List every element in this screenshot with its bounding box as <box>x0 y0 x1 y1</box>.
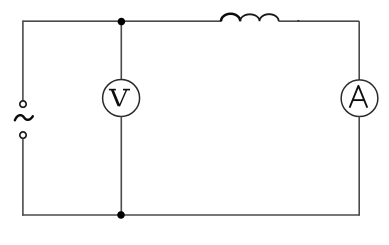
voltmeter letter V <box>109 90 130 107</box>
AC source tilde symbol <box>15 115 33 120</box>
wire top-middle horizontal (junction to inductor) <box>121 20 222 22</box>
wire ammeter branch upper <box>358 21 360 80</box>
wire left vertical lower (AC source to bottom) <box>22 139 24 216</box>
junction node top <box>118 18 126 26</box>
ammeter A <box>341 80 378 117</box>
ammeter letter A <box>350 86 368 108</box>
wire voltmeter branch lower <box>120 116 122 215</box>
wire nick on top-right segment <box>297 20 299 22</box>
junction node bottom <box>117 211 125 219</box>
wire bottom horizontal left (to junction) <box>22 214 121 216</box>
inductor L1 <box>221 14 240 21</box>
AC source terminal upper <box>20 101 26 107</box>
wire voltmeter branch upper <box>120 21 122 79</box>
wire top-left horizontal (source top to junction) <box>23 20 122 22</box>
AC source terminal lower <box>20 132 26 138</box>
wire top-right horizontal (inductor to ammeter branch) <box>279 20 360 22</box>
wire bottom horizontal right (junction to ammeter branch) <box>121 214 359 216</box>
wire left vertical upper (to AC source) <box>22 20 24 100</box>
wire ammeter branch lower <box>358 117 360 216</box>
voltmeter V <box>103 80 140 117</box>
